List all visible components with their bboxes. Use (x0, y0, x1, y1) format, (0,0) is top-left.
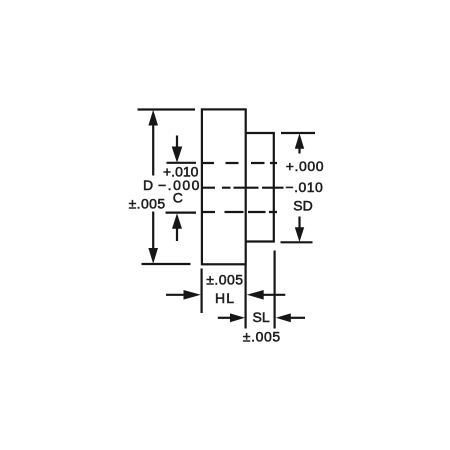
svg-text:D: D (143, 177, 153, 193)
svg-text:+.000: +.000 (286, 158, 324, 174)
svg-text:±.005: ±.005 (206, 272, 243, 288)
svg-text:SL: SL (253, 309, 270, 325)
svg-text:HL: HL (215, 290, 235, 306)
svg-text:±.005: ±.005 (129, 196, 166, 212)
svg-text:±.005: ±.005 (243, 329, 281, 345)
svg-text:C: C (173, 190, 183, 206)
svg-text:SD: SD (293, 198, 312, 214)
svg-text:−.010: −.010 (285, 179, 323, 195)
